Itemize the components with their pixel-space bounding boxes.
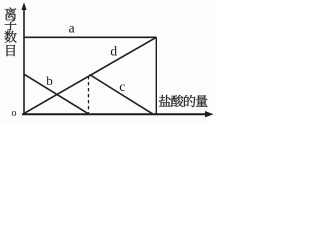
right vertical boundary line [155,37,157,114]
char 盐 [159,95,171,107]
svg-text:d: d [110,44,117,59]
line b (falling diagonal from y-axis to x-axis foot of dashed line) [24,74,88,114]
char 数 [4,31,16,43]
line c (falling diagonal from junction on d to x-axis) [90,75,153,114]
svg-text:o: o [12,108,17,119]
line d (rising diagonal from origin to top-right corner) [25,37,157,113]
x-axis arrowhead [205,111,214,117]
dashed vertical guide line [88,76,90,113]
svg-text:b: b [46,73,53,88]
y-axis arrowhead [21,2,26,10]
line a (horizontal plateau) [24,36,156,38]
y-axis [23,6,25,114]
char 的 [184,95,195,107]
char 子 [5,19,17,30]
char 量 [196,95,208,107]
char 离 [5,7,17,19]
svg-text:c: c [119,79,125,94]
char 目 [7,45,16,56]
x-axis [22,113,208,115]
svg-text:a: a [69,21,75,36]
char 酸 [171,95,183,107]
